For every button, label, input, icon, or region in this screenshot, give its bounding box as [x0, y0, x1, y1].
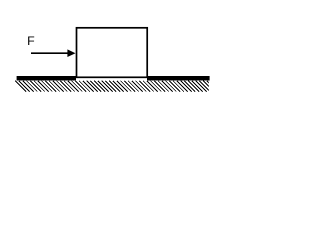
- svg-text:F: F: [27, 34, 35, 48]
